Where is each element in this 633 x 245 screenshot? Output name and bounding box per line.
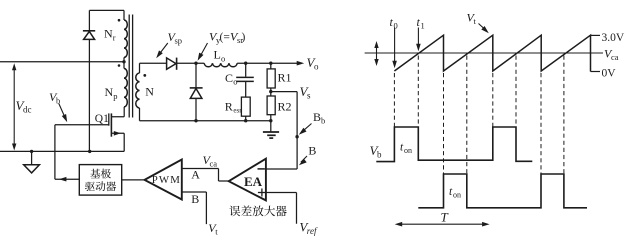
svg-text:ca: ca bbox=[210, 159, 218, 169]
svg-text:p: p bbox=[113, 91, 117, 101]
svg-text:B: B bbox=[308, 144, 316, 158]
svg-text:on: on bbox=[404, 146, 412, 155]
svg-text:B: B bbox=[313, 110, 321, 124]
svg-text:R: R bbox=[225, 99, 233, 113]
svg-text:ref: ref bbox=[307, 226, 318, 236]
svg-text:PWM: PWM bbox=[152, 174, 181, 186]
svg-text:o: o bbox=[314, 62, 319, 72]
svg-text:(=: (= bbox=[220, 32, 230, 44]
svg-text:r: r bbox=[113, 33, 116, 43]
svg-text:B: B bbox=[191, 192, 199, 206]
svg-text:dc: dc bbox=[23, 105, 32, 115]
svg-text:R2: R2 bbox=[278, 100, 292, 114]
svg-text:N: N bbox=[105, 85, 114, 99]
svg-text:esr: esr bbox=[233, 106, 242, 114]
svg-text:A: A bbox=[191, 168, 200, 182]
svg-text:sp: sp bbox=[175, 36, 183, 46]
svg-text:N: N bbox=[104, 27, 113, 41]
svg-text:1: 1 bbox=[421, 21, 425, 31]
svg-text:ca: ca bbox=[611, 52, 619, 62]
svg-text:C: C bbox=[225, 71, 233, 85]
svg-text:T: T bbox=[441, 210, 449, 225]
svg-text:Q1: Q1 bbox=[95, 113, 109, 125]
svg-text:EA: EA bbox=[244, 174, 263, 189]
svg-text:L: L bbox=[214, 48, 221, 62]
svg-text:3.0V: 3.0V bbox=[602, 32, 625, 44]
svg-text:s: s bbox=[307, 91, 311, 101]
svg-text:0V: 0V bbox=[602, 68, 617, 80]
svg-text:N: N bbox=[145, 85, 154, 99]
svg-text:b: b bbox=[377, 150, 382, 160]
svg-text:o: o bbox=[233, 77, 237, 87]
svg-text:b: b bbox=[321, 116, 325, 126]
svg-text:on: on bbox=[453, 191, 461, 200]
svg-text:R1: R1 bbox=[278, 71, 292, 85]
svg-text:o: o bbox=[221, 54, 225, 64]
svg-text:): ) bbox=[242, 32, 246, 44]
